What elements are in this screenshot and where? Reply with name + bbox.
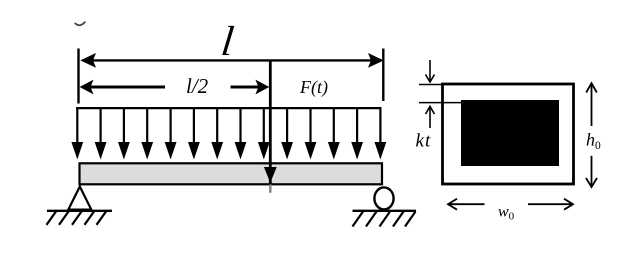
- roller support ground line: [353, 210, 417, 212]
- left extension line: [77, 49, 79, 104]
- pin support triangle: [68, 187, 91, 210]
- distributed load arrows: [71, 107, 386, 160]
- force line tail below beam: [269, 185, 272, 193]
- h0 up arrow: [586, 83, 597, 126]
- svg-text:l/2: l/2: [186, 74, 209, 98]
- cross-section inner solid rectangle: [461, 100, 559, 166]
- cross-section outer rectangle: [443, 84, 574, 184]
- svg-text:w0: w0: [498, 204, 515, 223]
- kt tick inner: [419, 102, 462, 104]
- right extension line: [382, 49, 384, 102]
- h0 down arrow: [586, 156, 597, 187]
- dimension arrow l/2 right: [231, 80, 270, 95]
- w0 left arrow: [448, 199, 485, 210]
- force line F(t): [269, 62, 272, 185]
- distributed load top line: [76, 107, 381, 109]
- force arrowhead: [264, 167, 277, 183]
- svg-text:F(t): F(t): [299, 77, 328, 98]
- stray pen mark: [75, 22, 85, 25]
- roller support hatching: [353, 212, 416, 227]
- dimension line l: [80, 53, 383, 68]
- pin support ground line: [47, 210, 112, 212]
- label l (span length): [219, 18, 236, 65]
- roller support circle: [374, 187, 393, 209]
- pin support hatching: [47, 212, 107, 225]
- w0 right arrow: [528, 199, 573, 210]
- beam: [80, 163, 383, 184]
- svg-text:h0: h0: [586, 130, 601, 153]
- dimension arrow l/2 left: [80, 80, 165, 95]
- kt down arrow: [426, 60, 435, 82]
- kt up arrow: [426, 106, 435, 128]
- kt tick outer: [419, 84, 443, 86]
- svg-text:l: l: [219, 18, 236, 65]
- svg-text:kt: kt: [416, 131, 432, 152]
